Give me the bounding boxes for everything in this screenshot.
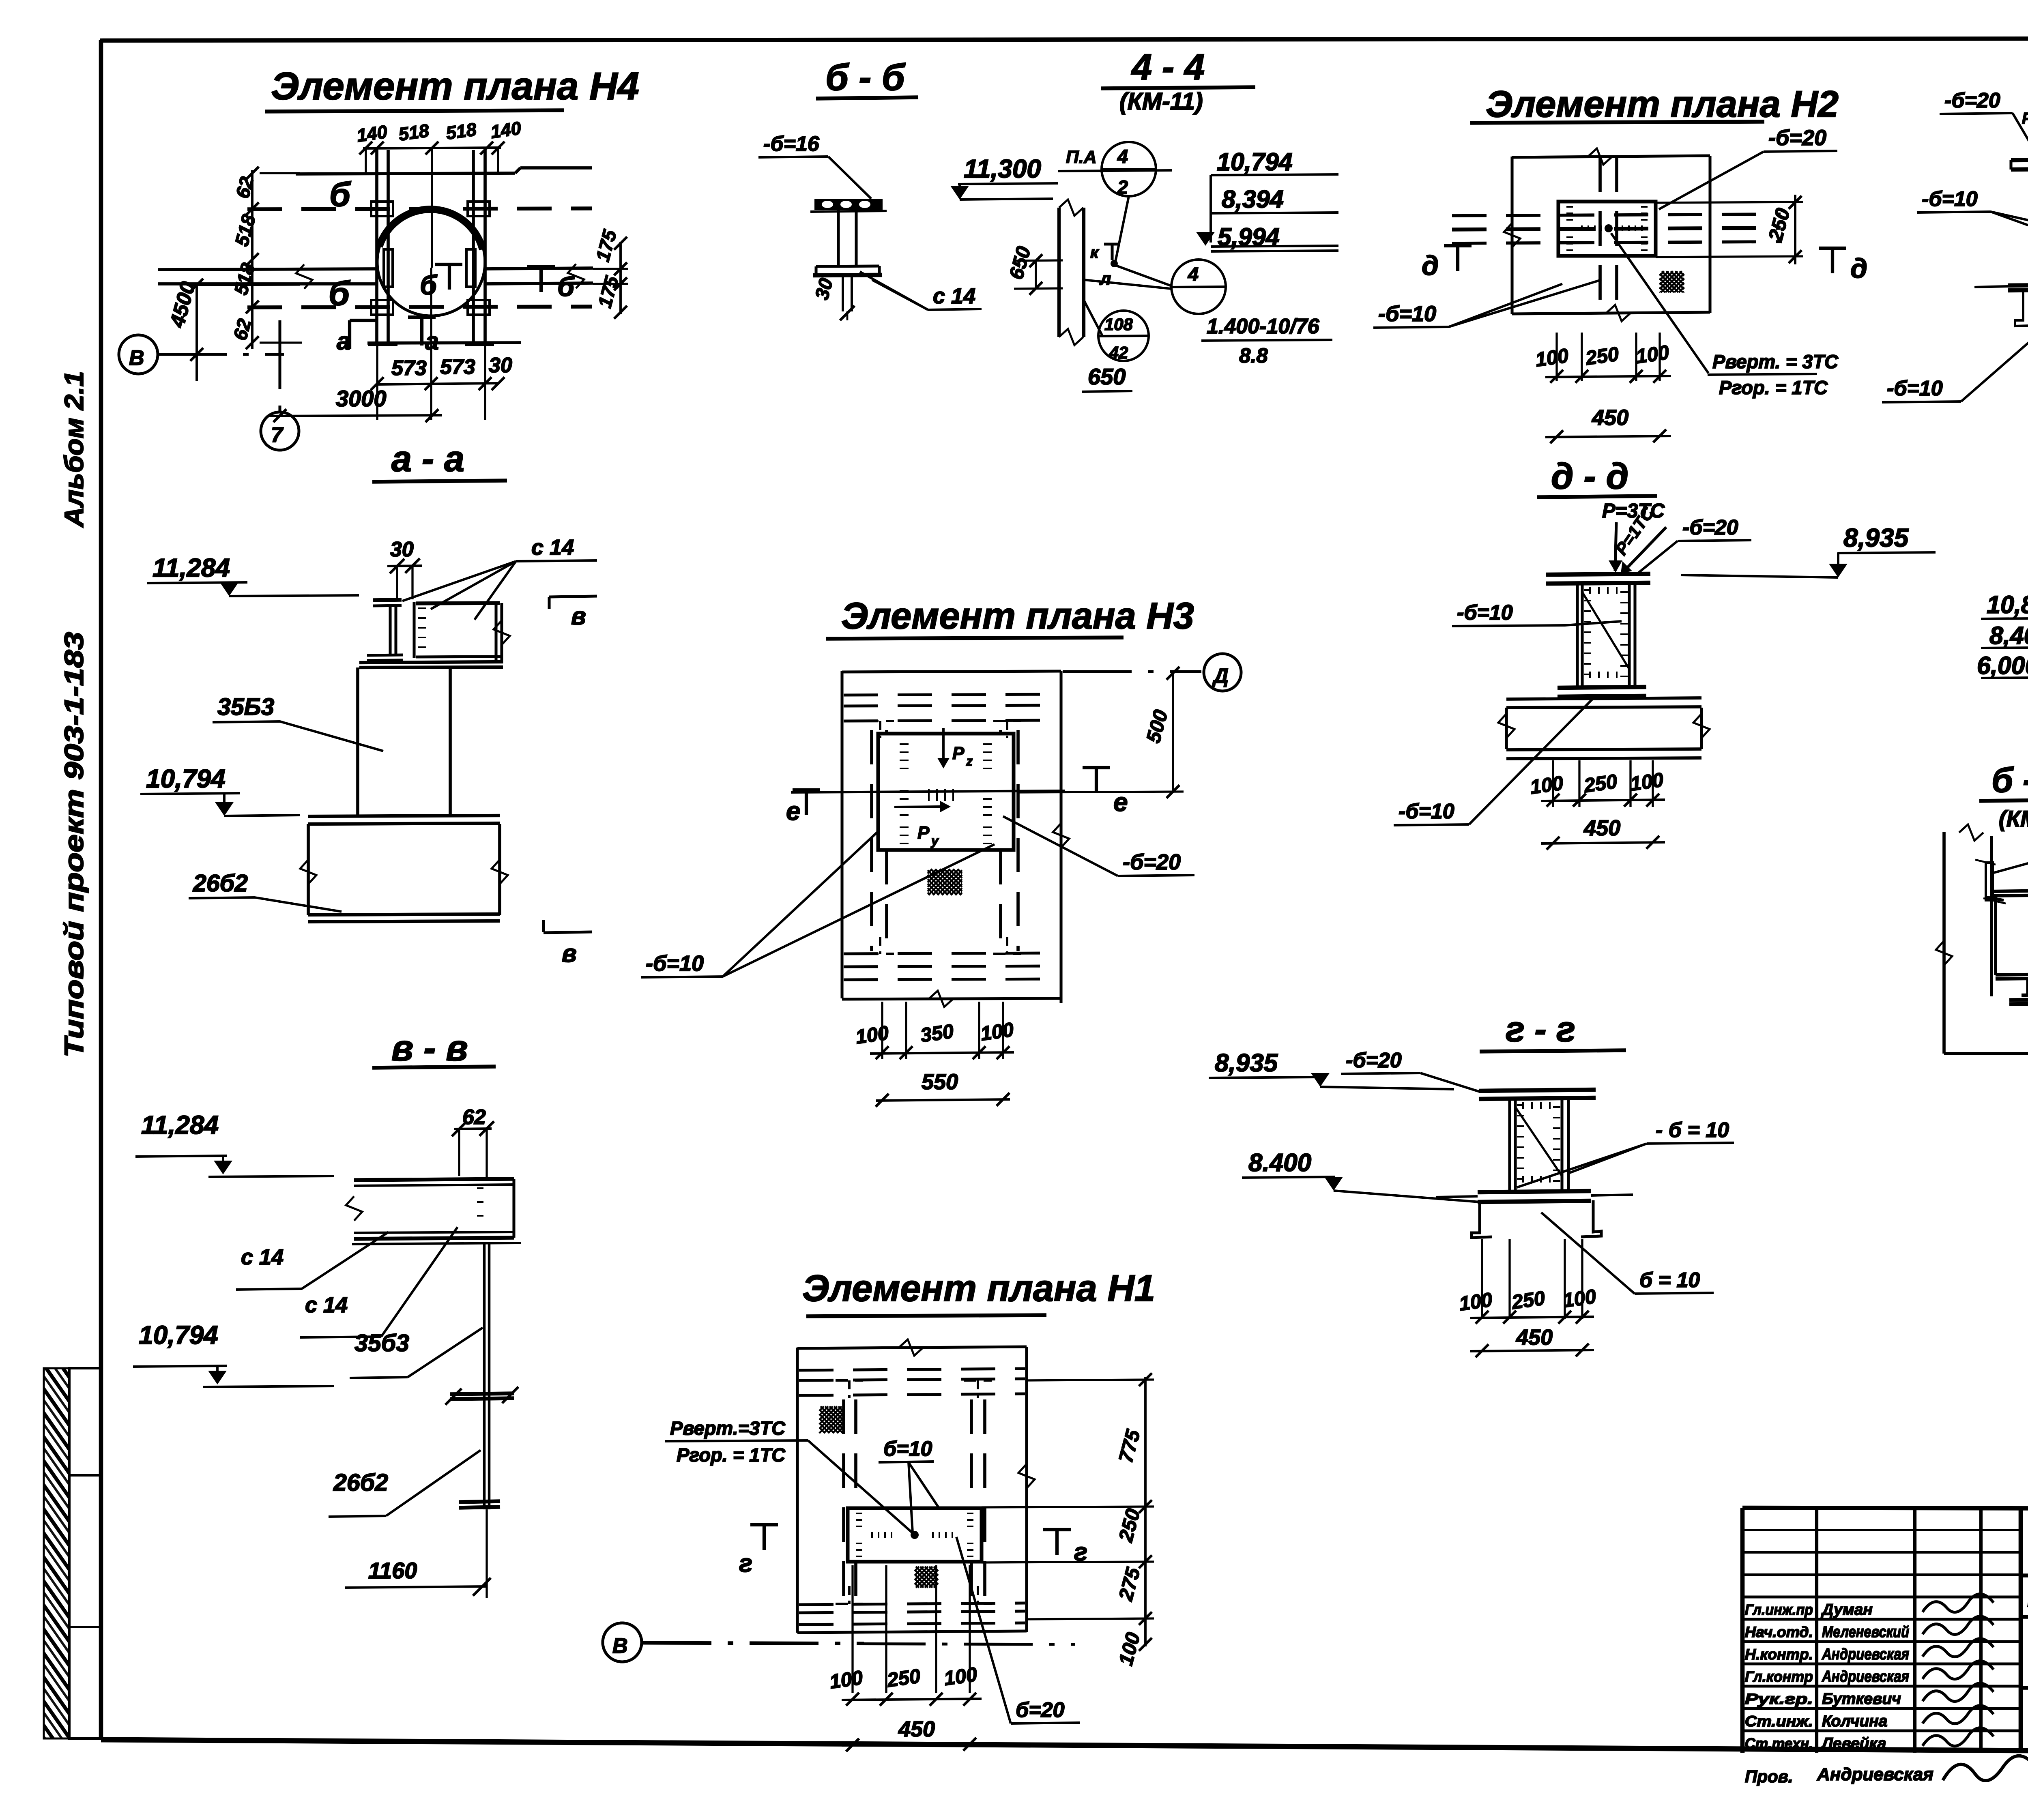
a-a beam 35B3 body xyxy=(356,667,359,816)
bb2 channel c27 under beam xyxy=(2026,979,2028,994)
H4 dim 4500 xyxy=(195,284,198,381)
H4 right beam edge lines xyxy=(486,268,593,269)
svg-text:е: е xyxy=(786,796,801,826)
svg-text:Гл.контр: Гл.контр xyxy=(1745,1668,1813,1685)
svg-text:35б3: 35б3 xyxy=(354,1330,409,1356)
svg-text:140: 140 xyxy=(489,118,522,142)
v-v thin plate under beam xyxy=(352,1243,521,1244)
H4 axis b upper dashed xyxy=(247,208,592,209)
H3 weld serrations xyxy=(900,744,909,768)
svg-text:б - б: б - б xyxy=(825,57,906,98)
bb2 corner angle L100x7 xyxy=(1986,863,1993,900)
svg-text:4: 4 xyxy=(1117,146,1128,167)
svg-text:100: 100 xyxy=(1635,341,1670,368)
g-g column flanges xyxy=(1508,1099,1511,1191)
H4 left dim column 62 518 518 62 xyxy=(251,170,253,349)
svg-text:-б=20: -б=20 xyxy=(1682,516,1738,539)
svg-text:Элемент плана Н1: Элемент плана Н1 xyxy=(802,1268,1155,1309)
svg-text:8,394: 8,394 xyxy=(1222,185,1284,213)
svg-text:-б=10: -б=10 xyxy=(646,951,704,976)
H3 bottom edge xyxy=(842,998,1061,999)
svg-text:30: 30 xyxy=(390,538,414,561)
svg-text:В: В xyxy=(612,1634,628,1658)
svg-text:2: 2 xyxy=(1117,176,1128,198)
a-a left I-beam section xyxy=(373,600,402,600)
svg-text:100: 100 xyxy=(979,1019,1015,1045)
g-g bottom dims 100 250 100 xyxy=(1481,1239,1483,1319)
H4 column flange plates xyxy=(371,202,393,216)
H4 section mark b middle xyxy=(435,263,462,266)
g-g channels under base xyxy=(1472,1202,1492,1238)
d-d column flanges xyxy=(1576,584,1579,687)
svg-text:Ргор. = 1ТС: Ргор. = 1ТС xyxy=(1719,377,1828,398)
b-b web tail and dim 30 xyxy=(842,275,844,311)
4-4 dim 650 rotated xyxy=(1035,260,1037,290)
e-e bottom plate wings xyxy=(1974,286,2008,287)
svg-text:Элемент плана Н2: Элемент плана Н2 xyxy=(1486,84,1839,125)
H1 outer outline xyxy=(796,1348,799,1633)
svg-text:П.А: П.А xyxy=(1066,147,1097,167)
svg-text:-б=20: -б=20 xyxy=(1944,89,2000,112)
bb2 wall inner face xyxy=(1990,836,1993,996)
svg-text:518: 518 xyxy=(445,119,477,144)
svg-text:100: 100 xyxy=(943,1663,978,1690)
H4 column pair left xyxy=(375,150,378,344)
H4 top dimension line xyxy=(363,148,501,148)
b-b I-beam web xyxy=(837,209,840,266)
svg-text:-б=10: -б=10 xyxy=(1887,377,1943,400)
svg-text:д: д xyxy=(1422,250,1439,281)
svg-text:450: 450 xyxy=(1516,1325,1553,1350)
svg-text:100: 100 xyxy=(1534,345,1570,371)
svg-text:Ргор. = 1ТС: Ргор. = 1ТС xyxy=(677,1444,786,1466)
svg-text:Ст.инж.: Ст.инж. xyxy=(1745,1713,1813,1730)
svg-text:-б=10: -б=10 xyxy=(1457,601,1513,625)
4-4 column bar xyxy=(1057,208,1061,337)
H1 section mark г right xyxy=(1043,1528,1071,1531)
H4 top extension verticals xyxy=(376,148,378,203)
svg-text:к: к xyxy=(1090,244,1099,262)
svg-text:Андриевская: Андриевская xyxy=(1817,1764,1933,1784)
svg-text:Нач.отд.: Нач.отд. xyxy=(1745,1624,1813,1640)
svg-text:б=10: б=10 xyxy=(883,1437,932,1461)
H4 axis b lower dashed xyxy=(247,307,592,307)
svg-text:8.8: 8.8 xyxy=(1239,344,1268,367)
svg-text:100: 100 xyxy=(828,1667,864,1693)
svg-text:в: в xyxy=(571,602,586,630)
svg-text:Ст.техн.: Ст.техн. xyxy=(1745,1735,1813,1752)
H2 dim 250 right xyxy=(1656,202,1803,203)
binding boxes column xyxy=(69,1368,101,1475)
svg-text:550: 550 xyxy=(922,1070,958,1094)
svg-text:Р: Р xyxy=(952,743,965,763)
H4 section marks a bottom xyxy=(348,320,351,349)
H4 axis B circle xyxy=(119,335,158,374)
H1 plate weld marks xyxy=(856,1513,862,1526)
svg-text:8,400: 8,400 xyxy=(1989,622,2028,649)
svg-text:350: 350 xyxy=(919,1020,955,1047)
svg-text:Д: Д xyxy=(1212,664,1229,687)
H3 gusset plate xyxy=(878,734,1014,850)
H3 upper T beam symbols dashed xyxy=(866,720,894,722)
title block top line xyxy=(1742,1508,2028,1509)
svg-text:г - г: г - г xyxy=(1506,1009,1575,1049)
v-v stiffener flange plate xyxy=(450,1393,514,1394)
sheet frame top border xyxy=(100,38,2028,41)
svg-text:у: у xyxy=(930,833,939,848)
sheet frame left border xyxy=(99,40,103,1740)
svg-text:Пров.: Пров. xyxy=(1745,1767,1793,1786)
svg-text:-б=20: -б=20 xyxy=(1768,126,1826,150)
svg-text:26б2: 26б2 xyxy=(333,1469,388,1496)
H4 circle opening xyxy=(377,208,485,316)
H2 dashed slab lines xyxy=(1452,214,1781,216)
svg-text:8.400: 8.400 xyxy=(1248,1149,1311,1177)
H1 right dims 775 250 275 100 xyxy=(1144,1377,1147,1646)
v-v bottom flange plate xyxy=(459,1501,500,1502)
svg-text:б: б xyxy=(420,270,438,300)
H4 beam top edge xyxy=(296,173,515,174)
H2 bottom dims 100 250 100 xyxy=(1555,333,1558,381)
svg-text:в: в xyxy=(562,940,577,967)
a-a flange junction double line xyxy=(308,816,500,816)
svg-text:42: 42 xyxy=(1109,343,1128,362)
H4 section mark b right xyxy=(527,265,555,268)
H2 plate weld ticks xyxy=(1566,207,1573,220)
a-a beam 26B2 body xyxy=(307,824,310,915)
4-4 circle 4 xyxy=(1171,260,1226,314)
e-e bottom plate xyxy=(2008,284,2028,285)
H1 bottom dims 100 250 100 xyxy=(851,1565,853,1693)
svg-text:11,284: 11,284 xyxy=(141,1110,219,1140)
a-a channel C14 side view xyxy=(412,602,415,658)
v-v channel beam horizontal xyxy=(354,1179,514,1180)
e-e channels under plate xyxy=(2015,290,2028,326)
svg-text:Рх=0,6т: Рх=0,6т xyxy=(2022,110,2028,127)
svg-text:11,284: 11,284 xyxy=(153,553,230,582)
svg-text:Типовой проект 903-1-183: Типовой проект 903-1-183 xyxy=(59,632,89,1058)
svg-text:518: 518 xyxy=(397,120,430,145)
svg-text:35Б3: 35Б3 xyxy=(217,693,274,720)
svg-text:30: 30 xyxy=(489,354,512,377)
sheet frame bottom border xyxy=(101,1740,2028,1753)
4-4 circle 108/42 xyxy=(1098,311,1149,361)
H3 lower T beam symbols dashed xyxy=(866,953,894,955)
bb2 beam 40Б2 box xyxy=(1994,896,1997,975)
svg-text:Н.контр.: Н.контр. xyxy=(1745,1646,1813,1663)
svg-text:Гл.инж.пр: Гл.инж.пр xyxy=(1745,1601,1813,1618)
svg-text:е: е xyxy=(1113,788,1128,817)
svg-text:б: б xyxy=(557,271,575,302)
e-e column top plate xyxy=(2011,159,2028,160)
svg-text:Рверт.=3ТС: Рверт.=3ТС xyxy=(670,1417,786,1439)
svg-text:а - а: а - а xyxy=(391,439,464,479)
H3 upper dashed slab lines xyxy=(844,694,1059,695)
svg-text:Элемент плана Н4: Элемент плана Н4 xyxy=(271,64,639,108)
d-d bottom dims 100 250 100 xyxy=(1552,760,1554,807)
H1 lower dashed slab lines xyxy=(799,1603,1025,1605)
d-d base plate xyxy=(1558,687,1646,688)
svg-text:Андриевская: Андриевская xyxy=(1822,1646,1909,1663)
H4 beam bottom edge xyxy=(367,343,521,343)
svg-text:1.400-10/76: 1.400-10/76 xyxy=(1207,315,1320,338)
svg-text:250: 250 xyxy=(1584,343,1620,369)
svg-text:7: 7 xyxy=(271,423,284,447)
svg-text:3000: 3000 xyxy=(336,386,387,411)
bb2 beam top double line xyxy=(1993,890,2028,891)
H3 bottom dims 100 350 100 xyxy=(881,1002,883,1059)
svg-text:с 14: с 14 xyxy=(933,284,975,308)
svg-text:26б2: 26б2 xyxy=(193,870,248,897)
svg-text:250: 250 xyxy=(1510,1287,1546,1313)
svg-text:100: 100 xyxy=(1562,1286,1597,1312)
H3 dashed column right xyxy=(999,730,1002,734)
svg-text:б = 10: б = 10 xyxy=(1639,1268,1700,1292)
H3 dashed column left xyxy=(870,730,873,951)
svg-text:573: 573 xyxy=(391,356,427,380)
svg-text:-б=16: -б=16 xyxy=(763,132,820,156)
H2 plate xyxy=(1558,202,1656,256)
svg-text:б: б xyxy=(329,175,351,213)
H2 outer outline xyxy=(1510,157,1513,314)
svg-text:- б = 10: - б = 10 xyxy=(1656,1118,1729,1142)
H2 dashed column verticals xyxy=(1598,157,1602,312)
H3 lower dashed slab lines xyxy=(844,953,1059,954)
svg-text:11,300: 11,300 xyxy=(964,154,1041,183)
H1 upper dashed slab lines xyxy=(799,1369,1025,1370)
H4 right dim 175 175 xyxy=(619,242,622,314)
svg-text:6,000: 6,000 xyxy=(1977,652,2028,679)
svg-text:Элемент плана Н3: Элемент плана Н3 xyxy=(841,595,1194,637)
H4 left beam edge lines xyxy=(158,269,376,270)
H3 axis Д xyxy=(1063,670,1201,673)
svg-text:10,800: 10,800 xyxy=(1987,591,2028,618)
H3 center line xyxy=(791,791,1065,792)
v-v column web xyxy=(483,1244,486,1509)
d-d beam top double line xyxy=(1506,698,1701,699)
H1 dashed columns xyxy=(842,1399,845,1602)
svg-text:108: 108 xyxy=(1104,315,1133,334)
a-a top of 35B3 double line xyxy=(359,662,503,663)
svg-text:4 - 4: 4 - 4 xyxy=(1131,47,1205,88)
svg-text:450: 450 xyxy=(1583,816,1620,840)
svg-text:10,794: 10,794 xyxy=(1217,148,1293,176)
g-g base plate xyxy=(1478,1191,1591,1192)
H4 dim line 573 573 30 xyxy=(377,383,498,384)
H4 column pair right xyxy=(472,150,475,344)
svg-text:Альбом 2.1: Альбом 2.1 xyxy=(59,371,89,528)
H2 section mark д right xyxy=(1819,247,1846,250)
H3 section mark e right xyxy=(1083,766,1110,769)
H1 upper T beam symbols xyxy=(836,1379,863,1382)
H1 axis B xyxy=(603,1623,642,1662)
g-g base plate wings xyxy=(1436,1196,1478,1197)
svg-text:1160: 1160 xyxy=(368,1558,417,1583)
bb2 wall corner outline xyxy=(1942,832,1946,1054)
svg-text:б: б xyxy=(329,274,350,312)
svg-text:в - в: в - в xyxy=(391,1028,468,1069)
svg-text:8,935: 8,935 xyxy=(1843,523,1909,552)
H3 hatch blob xyxy=(928,869,962,895)
svg-text:Рук.гр.: Рук.гр. xyxy=(1745,1691,1813,1707)
svg-text:а: а xyxy=(337,327,350,355)
H4 axis 7 line and circle xyxy=(278,320,281,412)
svg-text:с 14: с 14 xyxy=(241,1245,284,1269)
svg-text:4: 4 xyxy=(1188,263,1199,285)
H2 hatch blob xyxy=(1660,271,1684,292)
svg-text:-б=10: -б=10 xyxy=(1922,187,1978,211)
v-v weld marks on web top xyxy=(477,1188,483,1216)
H4 stiffener plates beside circle xyxy=(384,249,393,287)
svg-text:б=20: б=20 xyxy=(1016,1698,1064,1722)
svg-text:100: 100 xyxy=(854,1022,890,1048)
svg-text:250: 250 xyxy=(1582,770,1618,797)
H3 outer outline xyxy=(840,671,843,998)
svg-text:z: z xyxy=(966,754,973,768)
svg-text:(КМ-11): (КМ-11) xyxy=(1119,88,1203,115)
H1 plate xyxy=(848,1508,982,1562)
svg-text:Думан: Думан xyxy=(1821,1601,1873,1618)
4-4 circle 4/2 xyxy=(1102,142,1156,196)
4-4 leader lines xyxy=(1115,196,1129,262)
H3 section mark e left xyxy=(793,788,820,792)
svg-text:В: В xyxy=(129,346,144,370)
svg-text:д: д xyxy=(1850,253,1867,284)
svg-text:10,794: 10,794 xyxy=(146,764,226,793)
svg-text:8,935: 8,935 xyxy=(1215,1049,1278,1077)
svg-text:450: 450 xyxy=(1592,406,1628,430)
signatures squiggles xyxy=(1923,1594,1994,1612)
svg-text:573: 573 xyxy=(440,355,475,379)
svg-text:Рверт. = 3ТС: Рверт. = 3ТС xyxy=(1712,351,1839,372)
H4 column base bars xyxy=(368,342,397,346)
svg-text:с 14: с 14 xyxy=(305,1293,348,1317)
signature table grid xyxy=(1740,1508,1745,1753)
svg-text:л: л xyxy=(1099,269,1111,289)
bb2 bottom plate xyxy=(2009,999,2028,1000)
H1 lower T beam symbols xyxy=(836,1603,863,1605)
v-v axis B circle xyxy=(603,1623,642,1662)
H1 section mark г left xyxy=(750,1523,778,1526)
svg-text:62: 62 xyxy=(462,1105,486,1129)
b-b I-beam top flange xyxy=(814,199,883,210)
svg-text:б - б: б - б xyxy=(1991,761,2028,800)
svg-text:450: 450 xyxy=(898,1717,935,1741)
svg-text:Р: Р xyxy=(917,823,930,843)
svg-text:(КМ-11): (КМ-11) xyxy=(1999,806,2028,831)
svg-text:650: 650 xyxy=(1088,364,1126,389)
svg-text:с 14: с 14 xyxy=(531,535,574,560)
d-d beam body xyxy=(1505,708,1508,749)
svg-text:100: 100 xyxy=(1629,769,1665,795)
svg-text:Колчина: Колчина xyxy=(1822,1713,1887,1730)
b-b I-beam bottom flange xyxy=(816,266,879,266)
svg-text:250: 250 xyxy=(885,1665,922,1691)
a-a section marks в xyxy=(549,596,597,597)
H1 hatch blob lower xyxy=(915,1567,938,1588)
g-g top plate xyxy=(1479,1090,1596,1091)
svg-text:Меленевский: Меленевский xyxy=(1822,1623,1909,1641)
svg-text:Буткевич: Буткевич xyxy=(1822,1690,1901,1708)
svg-text:г: г xyxy=(739,1550,752,1577)
d-d top plate xyxy=(1546,574,1650,575)
svg-text:Андриевская: Андриевская xyxy=(1822,1668,1909,1685)
svg-text:Левейка: Левейка xyxy=(1821,1735,1886,1752)
H3 dim 500 xyxy=(1172,672,1174,793)
svg-text:д - д: д - д xyxy=(1551,456,1628,497)
svg-text:-б=20: -б=20 xyxy=(1346,1049,1402,1072)
svg-text:-б=10: -б=10 xyxy=(1399,800,1454,823)
svg-text:-б=10: -б=10 xyxy=(1378,302,1436,326)
svg-text:10,794: 10,794 xyxy=(139,1320,218,1350)
svg-text:-б=20: -б=20 xyxy=(1123,850,1181,874)
H1 hatch blob upper xyxy=(819,1406,843,1433)
